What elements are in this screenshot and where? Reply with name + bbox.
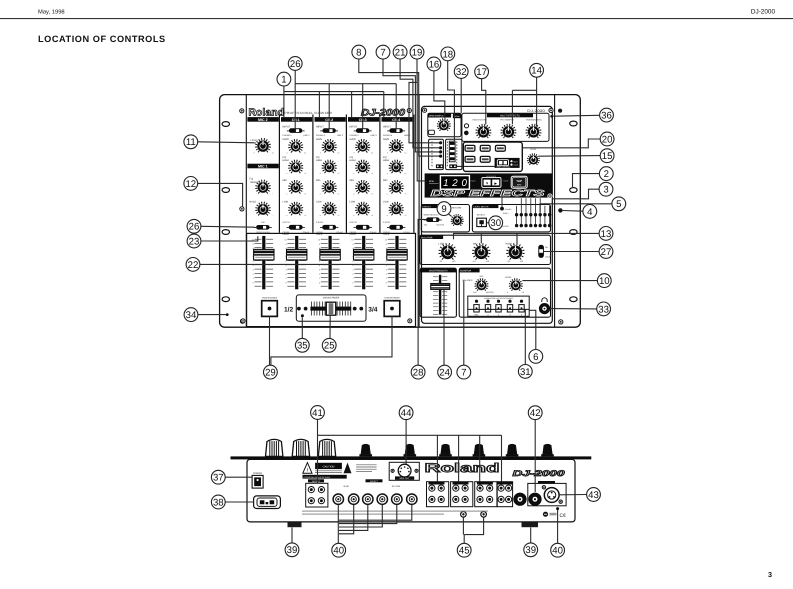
wire callout 5 to meter	[540, 204, 612, 213]
face black dot top-right	[558, 109, 562, 113]
svg-text:DJ-2000: DJ-2000	[751, 9, 776, 16]
svg-text:33: 33	[598, 304, 609, 315]
svg-text:PGM 1: PGM 1	[503, 212, 509, 215]
svg-text:MASTER: MASTER	[437, 223, 445, 226]
CH-2 header bar	[315, 117, 346, 122]
svg-text:0: 0	[507, 291, 508, 294]
svg-text:20: 20	[602, 134, 613, 145]
svg-text:BPM: BPM	[517, 184, 522, 187]
svg-text:1: 1	[352, 277, 354, 280]
fader handle CH-4	[387, 249, 407, 260]
LEVEL METER box	[472, 205, 550, 232]
level meter power dot + stem	[501, 198, 503, 207]
svg-text:3: 3	[352, 269, 354, 272]
power LED dot (target of 36)	[550, 115, 553, 118]
svg-text:10: 10	[304, 152, 306, 155]
switch INPUT phono/line CH-1	[289, 128, 303, 133]
wire beat connector to beat control	[457, 165, 495, 167]
callout 29	[264, 365, 278, 379]
svg-text:3: 3	[603, 185, 608, 196]
channel separator line left of CH-3	[345, 115, 347, 233]
callout 11	[184, 135, 198, 149]
svg-text:10: 10	[318, 239, 321, 242]
channel separator line left of CH-1	[278, 115, 280, 233]
svg-text:39: 39	[287, 545, 298, 556]
face screw top-right of channels	[407, 108, 411, 112]
svg-text:-∞: -∞	[319, 215, 322, 217]
svg-text:2: 2	[352, 273, 354, 276]
svg-text:-: -	[254, 216, 255, 218]
fader handle CH-3	[354, 249, 374, 260]
MIDI OUT box	[389, 462, 419, 480]
rear dot (target of 40R)	[556, 507, 559, 510]
wire callout 20 to beat control box	[523, 139, 601, 148]
rack ear oval hole R y232	[570, 230, 577, 235]
face screw top-left	[240, 109, 244, 113]
switch INPUT phono/line CH-2	[322, 128, 336, 133]
svg-text:19: 19	[412, 48, 423, 59]
callout 12	[184, 177, 198, 191]
svg-text:HIGH: HIGH	[383, 159, 389, 162]
wire callout 17 to FX knob 1	[482, 79, 486, 125]
callout 10	[597, 274, 611, 288]
svg-text:MONITOR: MONITOR	[460, 270, 471, 273]
svg-text:EQ: EQ	[250, 178, 254, 181]
callout 33	[597, 302, 611, 316]
svg-text:CH-1: CH-1	[292, 118, 300, 122]
knob ISOLATOR LOW	[442, 258, 443, 260]
knob EQ HIGH CH-3	[358, 171, 359, 173]
wire callout 26 to input switches rail	[294, 71, 296, 129]
svg-text:0: 0	[387, 152, 388, 155]
rear panel body	[247, 459, 575, 522]
svg-text:44: 44	[401, 408, 412, 419]
svg-text:0: 0	[285, 281, 287, 284]
fader handle MASTER	[431, 284, 450, 290]
AC inlet	[254, 496, 281, 509]
rear foot left	[288, 522, 302, 527]
svg-text:RETURN: RETURN	[392, 485, 401, 488]
svg-text:36: 36	[601, 111, 612, 122]
rear phone jack x382.3	[377, 494, 387, 504]
svg-text:40: 40	[333, 546, 344, 557]
callout 45	[457, 543, 471, 557]
svg-text:2: 2	[285, 273, 287, 276]
callout 39 right	[524, 543, 538, 557]
svg-text:POWER: POWER	[505, 208, 512, 211]
svg-text:41: 41	[312, 408, 323, 419]
svg-text:10: 10	[337, 152, 339, 155]
svg-text:LEVEL: LEVEL	[530, 148, 537, 151]
svg-text:-: -	[254, 194, 255, 196]
svg-text:EFFECT: EFFECT	[422, 206, 431, 209]
svg-text:+6: +6	[404, 172, 406, 175]
wire callout 37 to power switch	[225, 476, 252, 478]
rear MASTER box	[528, 483, 566, 505]
svg-text:TRANSFORMER: TRANSFORMER	[262, 297, 278, 300]
ISOLATOR box	[420, 235, 551, 264]
wire callout 7 to beat LED 3	[383, 59, 439, 152]
wire callout 21 to beat LED 2	[400, 59, 439, 148]
rear fine print line 2	[302, 514, 444, 515]
callout 14	[530, 63, 544, 77]
svg-text:!: !	[307, 468, 309, 473]
svg-text:-∞: -∞	[386, 215, 389, 217]
knob EQ LOW CH-3	[358, 214, 359, 216]
front panel left ear / face divider	[245, 95, 247, 328]
rear panel top edge (thick)	[231, 456, 592, 459]
face screw mid-left	[240, 207, 244, 211]
svg-text:LOW: LOW	[350, 201, 356, 204]
fader track+ticks CH-2	[318, 236, 340, 289]
svg-text:INPUT: INPUT	[383, 125, 391, 128]
knob EQ MID CH-2	[325, 192, 326, 194]
rear big knob at 274.2	[266, 439, 283, 456]
svg-text:May, 1998: May, 1998	[38, 9, 65, 16]
wire callout 29 to transform buttons	[269, 316, 271, 365]
svg-text:A B CH: A B CH	[350, 221, 358, 224]
wire callout 11 to MIC2 LEVEL knob	[198, 142, 256, 143]
svg-text:0: 0	[287, 152, 288, 155]
svg-text:43: 43	[588, 490, 599, 501]
svg-text:BPM SAMPLE: BPM SAMPLE	[429, 115, 444, 118]
svg-text:LOW: LOW	[439, 242, 445, 245]
knob ISOLATOR HIGH	[510, 258, 511, 260]
svg-text:9: 9	[253, 243, 255, 246]
monitor cue select buttons	[468, 296, 529, 317]
svg-text:13: 13	[601, 229, 612, 240]
svg-text:40: 40	[552, 546, 563, 557]
svg-text:+6: +6	[304, 172, 306, 175]
EFFECT send select box	[421, 205, 469, 232]
rack ear oval hole L y190	[222, 188, 229, 193]
svg-text:MIC: MIC	[480, 275, 484, 278]
wire callout 44 to MIDI	[405, 420, 407, 464]
callout 44	[399, 406, 413, 420]
crossfader cue dot (target of 35)	[301, 314, 304, 317]
svg-text:INPUT: INPUT	[350, 125, 358, 128]
svg-text:7: 7	[461, 368, 466, 379]
rack ear dot (target of callout 34)	[226, 313, 229, 316]
wire callout 15 to effect level knob	[539, 155, 600, 158]
svg-text:▶: ▶	[494, 181, 497, 185]
wire callout 31 to cue buttons	[524, 309, 526, 364]
rear phone jack x411.8	[407, 494, 417, 504]
svg-text:POWER: POWER	[253, 472, 262, 475]
MIC 2 label bar	[247, 117, 278, 122]
svg-text:+: +	[272, 193, 273, 196]
black memory button (target of 32)	[453, 113, 461, 118]
svg-text:12: 12	[185, 179, 196, 190]
svg-text:BASS: BASS	[250, 201, 257, 204]
wire callout 30 to select button	[486, 222, 490, 224]
svg-text:MID: MID	[383, 179, 388, 182]
knob MULTI FX 2 PITCH/DEPTH	[504, 137, 505, 139]
knob EQ LOW CH-4	[392, 214, 393, 216]
svg-text:+6: +6	[304, 214, 306, 217]
wire callout 6 to cue box	[529, 310, 536, 349]
svg-text:45: 45	[459, 546, 470, 557]
wire callout 38 to AC inlet	[225, 501, 253, 503]
callout 6	[529, 350, 543, 364]
svg-text:A B CH: A B CH	[383, 221, 391, 224]
svg-text:24: 24	[439, 368, 450, 379]
callout 34	[184, 308, 198, 322]
callout 7 top	[376, 45, 390, 59]
fader plate screw right	[408, 319, 412, 323]
svg-text:23: 23	[189, 236, 200, 247]
svg-text:MIC: MIC	[424, 223, 428, 226]
svg-text:9: 9	[386, 243, 388, 246]
callout 15	[600, 149, 614, 163]
rear RCA group at 450.6	[451, 482, 473, 507]
knob MIC2 LEVEL	[258, 151, 259, 153]
callout 17	[475, 65, 489, 79]
BPM/SAMPLE box	[428, 113, 461, 137]
switch POWER	[252, 475, 263, 488]
callout 16	[427, 57, 441, 71]
svg-text:29: 29	[265, 368, 276, 379]
svg-text:-12: -12	[507, 260, 510, 263]
fader handle CH-2	[320, 249, 340, 260]
callout 25	[322, 338, 336, 352]
svg-text:3/4: 3/4	[368, 306, 377, 313]
svg-text:GAIN: GAIN	[283, 138, 289, 141]
wire callout 27 to isolator switch	[544, 251, 599, 253]
svg-text:MIC 2: MIC 2	[258, 118, 268, 122]
callout 40 right	[551, 543, 565, 557]
knob EQ HIGH CH-1	[291, 171, 292, 173]
svg-text:-∞: -∞	[353, 215, 356, 217]
channel separator line left of CH-4	[379, 115, 381, 233]
effect select buttons box + BEAT CONTROL	[463, 142, 522, 171]
svg-text:-∞: -∞	[386, 173, 389, 175]
callout 18	[441, 47, 455, 61]
callout 28	[411, 365, 425, 379]
effects sub-plate	[422, 106, 553, 323]
svg-text:9: 9	[285, 243, 287, 246]
callout 2	[599, 167, 613, 181]
rear big knob at 327.0	[318, 439, 335, 456]
wire callout 34 to ear dot	[198, 314, 226, 316]
svg-text:2: 2	[319, 273, 321, 276]
callout 39 left	[285, 543, 299, 557]
svg-text:2: 2	[386, 273, 388, 276]
svg-text:26: 26	[290, 59, 301, 70]
svg-text:4: 4	[587, 207, 593, 218]
svg-text:-12: -12	[473, 260, 476, 263]
callout 4	[583, 205, 597, 219]
wire callout 12 to MIC1 EQ knobs	[198, 183, 243, 207]
wire callout 7b to balance knob	[463, 280, 465, 365]
svg-text:DSP EFFECTS: DSP EFFECTS	[431, 188, 545, 198]
callout 38	[211, 495, 225, 509]
svg-text:14: 14	[531, 66, 542, 77]
knob EQ HIGH CH-4	[392, 171, 393, 173]
callout 7 bottom	[457, 365, 471, 379]
rear phone jack x396.8	[392, 494, 402, 504]
svg-text:SEND SELECT: SEND SELECT	[424, 213, 440, 216]
rear small knob at 409.8	[404, 444, 417, 456]
callout 9	[437, 202, 451, 216]
wire callout 24 to master fader	[443, 290, 445, 366]
svg-text:MID: MID	[283, 179, 288, 182]
button HOLD	[429, 130, 435, 134]
callout 27	[599, 245, 613, 259]
CH-3 header bar	[348, 117, 379, 122]
svg-text:ON: ON	[545, 246, 548, 249]
svg-text:9: 9	[352, 243, 354, 246]
svg-text:0: 0	[352, 281, 354, 284]
wire callout 35 to cue dot	[301, 317, 303, 338]
svg-text:34: 34	[186, 310, 197, 321]
callout 3	[599, 182, 613, 196]
wire callout 10 to monitor level knob	[522, 280, 597, 282]
svg-text:RATE/CUTOFF: RATE/CUTOFF	[473, 118, 488, 121]
svg-text:LOW: LOW	[316, 201, 322, 204]
tap LED pair	[464, 124, 468, 128]
svg-text:HOLD: HOLD	[429, 135, 434, 138]
svg-text:MULTI EFFECTS: MULTI EFFECTS	[500, 115, 520, 118]
svg-text:LINE 2: LINE 2	[337, 134, 344, 137]
rear small knob at 445.5	[439, 444, 452, 456]
knob MONITOR LEVEL	[512, 289, 513, 290]
callout 37	[211, 470, 225, 484]
crossfader assembly	[296, 295, 366, 321]
callout 26 top	[288, 57, 302, 71]
callout 19	[410, 45, 424, 59]
effects plate screw top-right	[549, 108, 553, 112]
CH-1 header bar	[281, 117, 312, 122]
svg-text:LINE 3: LINE 3	[370, 134, 377, 137]
svg-text:35: 35	[297, 341, 308, 352]
callout 22	[186, 258, 200, 272]
callout 32	[454, 65, 468, 79]
fader track+ticks CH-1	[284, 236, 306, 289]
svg-text:-∞: -∞	[353, 194, 356, 196]
svg-text:EFFECT: EFFECT	[370, 480, 379, 483]
svg-text:Roland: Roland	[425, 461, 500, 475]
rear phone jack x338.3	[333, 494, 343, 504]
callout 31	[518, 365, 532, 379]
svg-text:32: 32	[456, 67, 467, 78]
button TRANSFORM 3/4	[384, 301, 400, 317]
knob SAMPLE	[440, 130, 441, 131]
svg-text:39: 39	[525, 545, 536, 556]
svg-text:GAIN: GAIN	[383, 138, 389, 141]
svg-text:9: 9	[441, 204, 446, 215]
rack ear oval hole L y299.2	[222, 297, 229, 302]
svg-text:STOCK: STOCK	[470, 180, 477, 183]
svg-text:+12: +12	[486, 260, 489, 263]
knob EQ MID CH-1	[291, 192, 292, 194]
callout 43	[587, 488, 601, 502]
svg-text:A B: A B	[261, 221, 265, 224]
svg-text:CUE/MASTER OUT SELECT/POWER: CUE/MASTER OUT SELECT/POWER	[484, 297, 514, 300]
knob MULTI FX 1 RATE/CUTOFF	[479, 137, 480, 139]
wire callout 18 to beat ladder	[448, 61, 455, 141]
svg-text:MASTER/BOOTH: MASTER/BOOTH	[429, 270, 448, 273]
svg-text:25: 25	[324, 341, 335, 352]
wire callout 23 to fader top	[201, 236, 258, 241]
callout 40 left	[332, 543, 346, 557]
face screw bottom-left	[240, 319, 244, 323]
rear foot-switch jack 1	[461, 512, 467, 518]
knob MULTI FX 3 FORWARD/RISO	[529, 137, 530, 139]
fader handle CH-1	[287, 249, 307, 260]
svg-text:CUE: CUE	[473, 291, 478, 294]
svg-text:10: 10	[522, 291, 524, 294]
svg-text:42: 42	[530, 408, 541, 419]
callout 20	[600, 132, 614, 146]
svg-text:3: 3	[319, 269, 321, 272]
knob GAIN CH-4	[392, 151, 393, 153]
svg-text:+6: +6	[371, 172, 373, 175]
wire callout 14 to FX knobs 2+3	[536, 77, 538, 126]
svg-text:LOUD: LOUD	[545, 256, 551, 259]
svg-text:9: 9	[319, 243, 321, 246]
wire callout 2 to ear oval	[573, 174, 600, 187]
svg-text:A B CH: A B CH	[316, 221, 324, 224]
svg-text:21: 21	[395, 48, 406, 59]
MASTER/BOOTH box + fader track	[420, 268, 456, 317]
rack ear oval hole R y190	[570, 188, 577, 193]
svg-text:TAP: TAP	[516, 179, 522, 183]
svg-text:1/2: 1/2	[284, 306, 293, 313]
svg-text:INPUT: INPUT	[316, 125, 324, 128]
callout 13	[599, 227, 613, 241]
DSP EFFECTS display area	[425, 173, 552, 198]
svg-text:10: 10	[272, 152, 274, 155]
svg-text:15: 15	[602, 151, 613, 162]
wire callout 9 to send select	[448, 213, 452, 216]
MULTI EFFECTS box	[462, 113, 549, 141]
svg-text:1: 1	[253, 277, 255, 280]
MIC 1 label bar	[247, 164, 278, 169]
callout 21	[393, 45, 407, 59]
fader track+ticks CH-3	[351, 236, 373, 289]
svg-text:SEND: SEND	[343, 485, 349, 488]
wire callout 22 across faders	[200, 263, 397, 265]
fader track+ticks MIC	[251, 236, 273, 289]
rear fine print line 1	[302, 511, 488, 512]
rack ear oval hole L y232	[222, 230, 229, 235]
button TRANSFORM 1/2	[262, 301, 278, 317]
rack ear oval hole L y124	[222, 122, 229, 127]
svg-text:LOW: LOW	[383, 201, 389, 204]
svg-text:LINE 1: LINE 1	[303, 134, 310, 137]
knob ISOLATOR MID	[476, 258, 477, 260]
wire callout 1 to CH headers rail	[283, 86, 285, 117]
svg-text:22: 22	[188, 260, 199, 271]
svg-text:FORWARD/RISO: FORWARD/RISO	[526, 118, 542, 121]
rear foot-switch jack 2	[481, 512, 487, 518]
fader track+ticks CH-4	[385, 236, 407, 289]
wire callout 26L to MIC A/B switch	[201, 225, 256, 228]
svg-text:+6: +6	[371, 193, 373, 196]
svg-text:37: 37	[213, 473, 224, 484]
knob EQ HIGH CH-2	[325, 171, 326, 173]
svg-text:3: 3	[285, 269, 287, 272]
svg-text:0: 0	[253, 281, 255, 284]
svg-text:GAIN: GAIN	[316, 138, 322, 141]
svg-text:PHONO 4: PHONO 4	[383, 134, 393, 137]
svg-text:-∞: -∞	[319, 194, 322, 196]
callout 35	[295, 338, 309, 352]
svg-text:8: 8	[356, 48, 361, 59]
svg-text:10: 10	[404, 152, 406, 155]
svg-text:LEVEL METER: LEVEL METER	[474, 206, 489, 209]
